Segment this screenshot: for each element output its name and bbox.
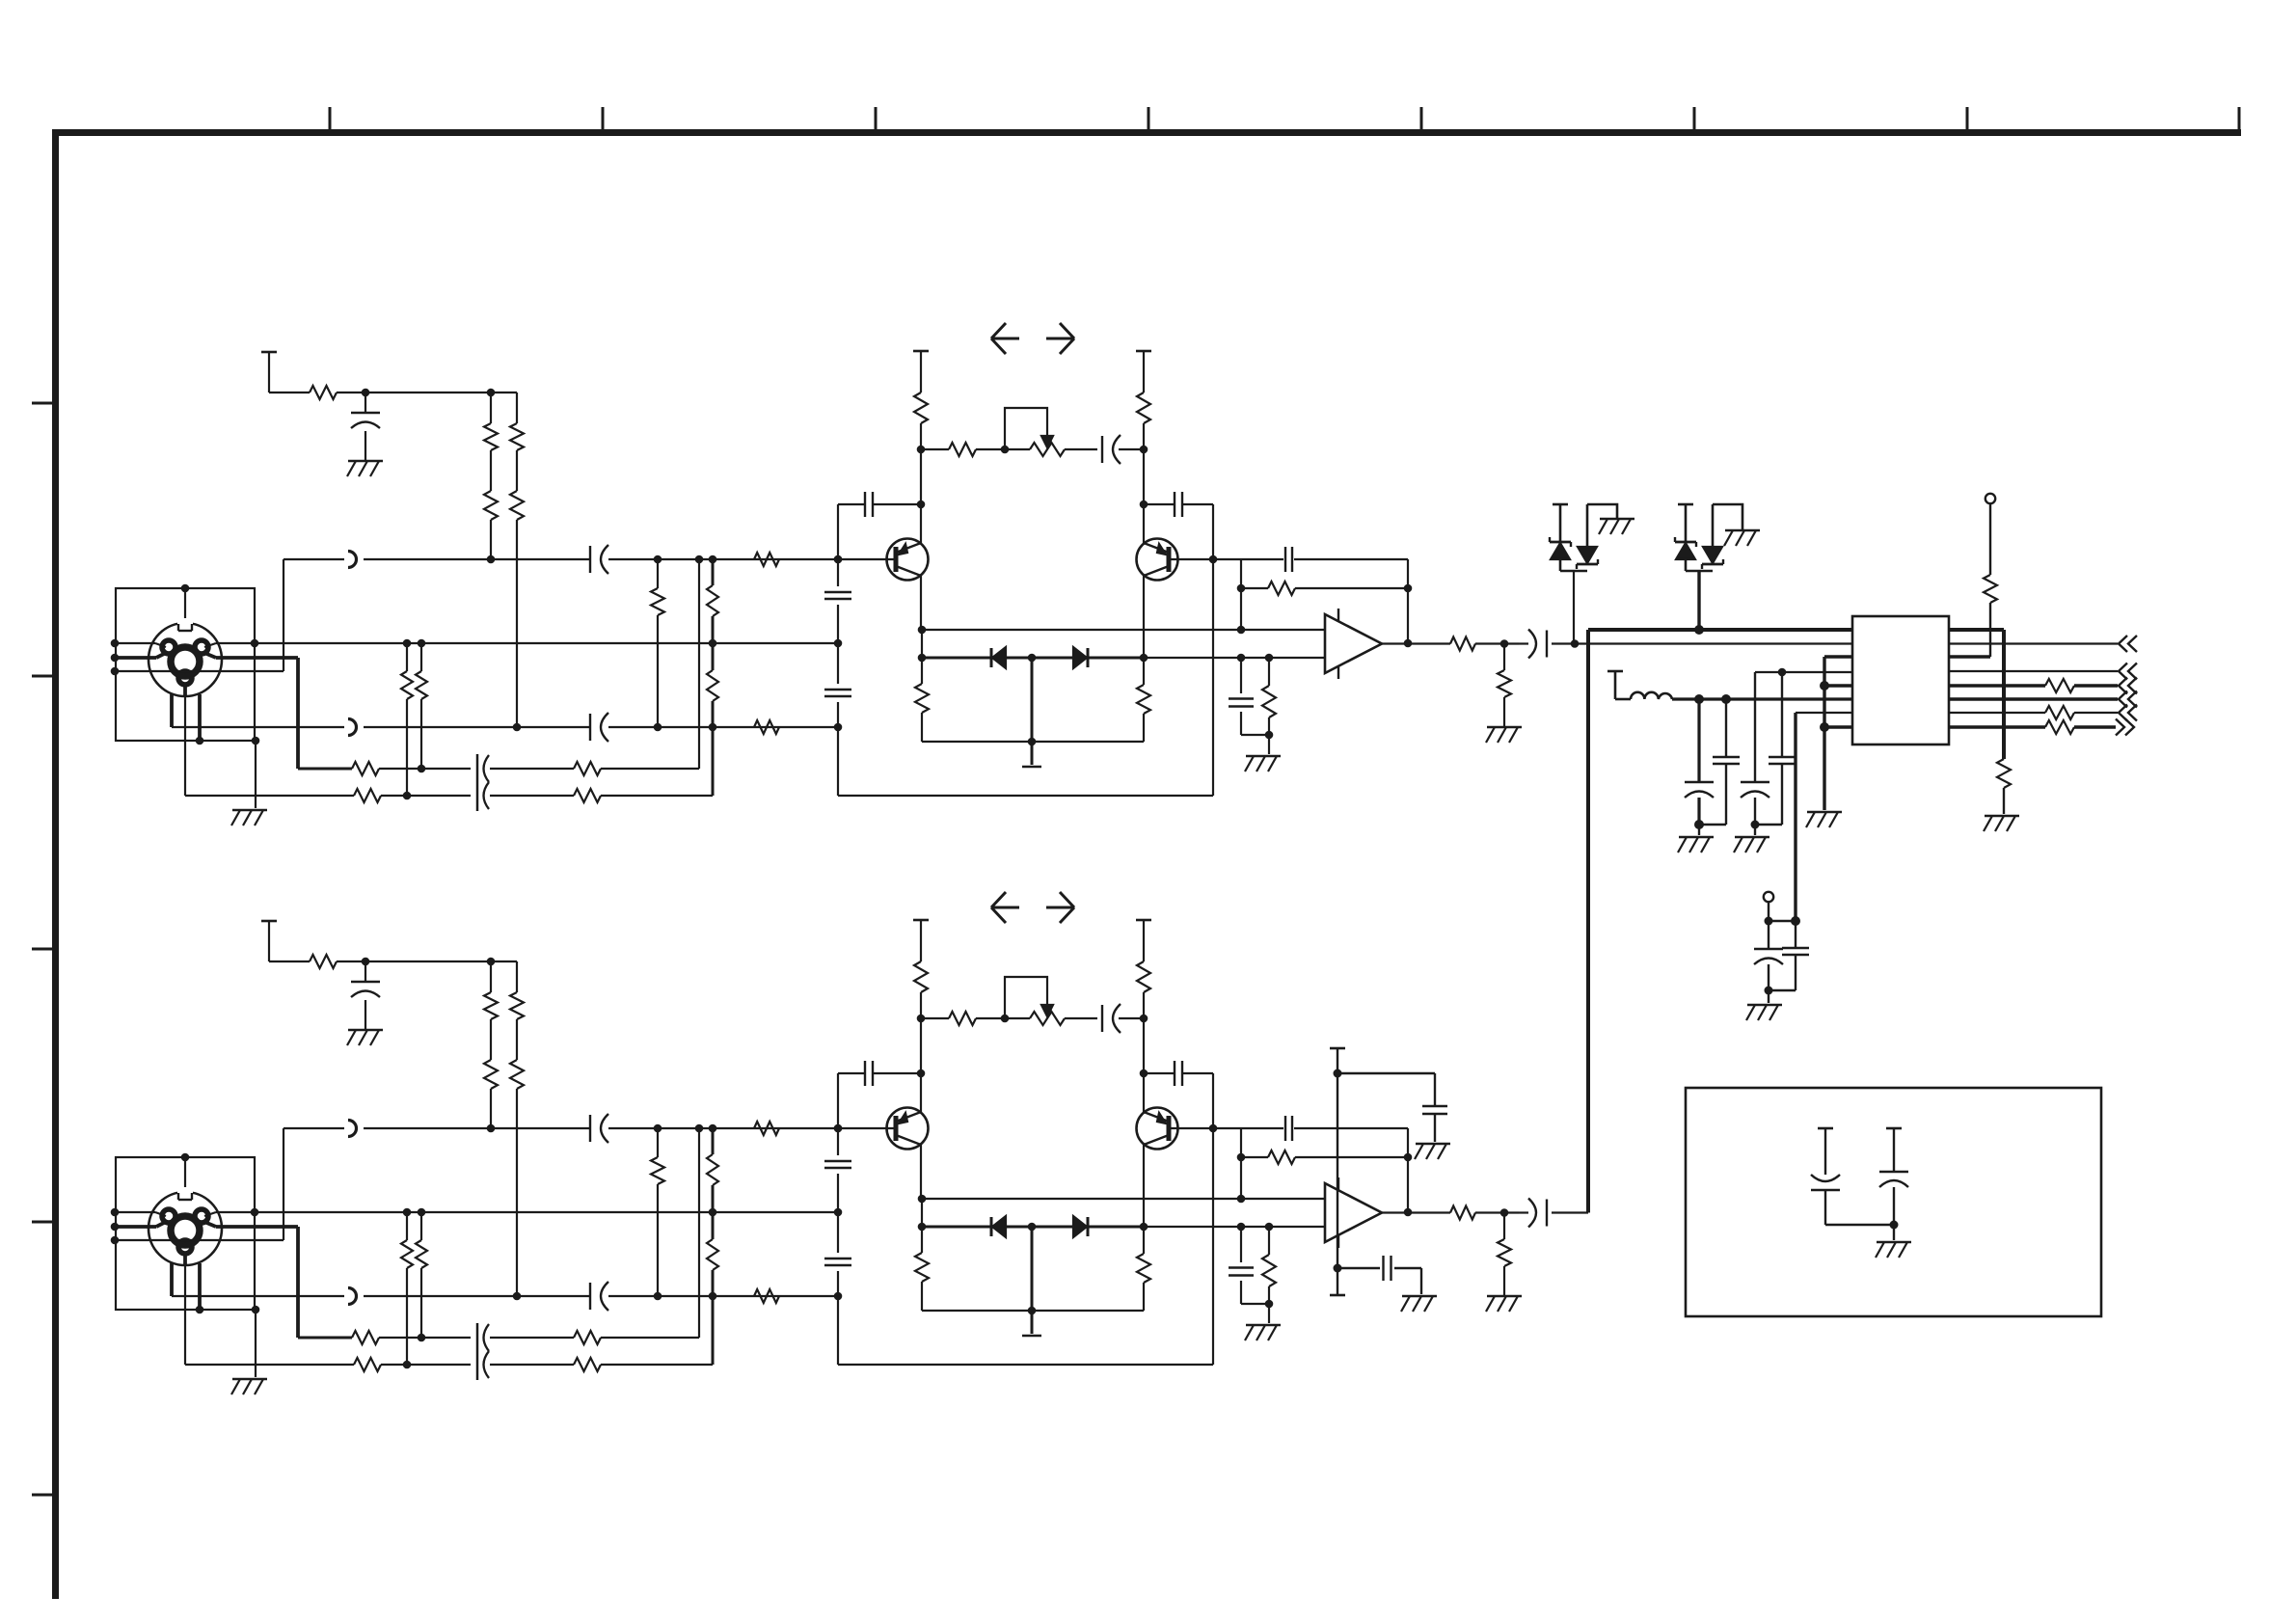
node ch1 cold taps — [654, 723, 843, 732]
TVS clamp pair D3 — [1550, 504, 1617, 644]
wire ch2 phantom feed — [269, 961, 517, 962]
node ch2 diode line taps — [918, 1223, 1274, 1232]
wire ch1 pin sense line — [116, 670, 284, 672]
capacitor ch1 base column lower — [824, 690, 851, 696]
wire ch1 hot riser — [283, 559, 284, 671]
wire ch2 pin2 lead — [204, 1222, 298, 1338]
wire ch2 output node — [1475, 1211, 1519, 1213]
node pin697 taps — [1778, 668, 1787, 677]
transistor ch2 Q2 PNP — [1137, 1108, 1178, 1150]
capacitor ch1 cold coupling — [590, 713, 608, 742]
wire IC out 696 — [1949, 670, 2118, 672]
wire IC pin 711 branch — [1824, 684, 1852, 687]
connector XLR ch1 body — [149, 623, 222, 696]
chevron out 754 — [2116, 719, 2134, 736]
wire supply cap rail 2 — [1755, 825, 1782, 835]
node ch1 feedback taps — [1237, 584, 1413, 593]
wire ch2 w1 riser — [698, 1128, 700, 1338]
resistor ch1 Q2 collector load — [1137, 392, 1150, 423]
frame tick top 4 — [1148, 107, 1150, 132]
resistor ch1 feed 6k8 A lower — [484, 491, 498, 520]
wire ch2 supply bypass lower — [1337, 1267, 1380, 1269]
node ch2 output tap — [1500, 1208, 1509, 1217]
contact ch2 cold jack — [348, 1288, 357, 1305]
wire IC out 754 — [1949, 725, 2116, 728]
node IC ground verticals — [1820, 681, 1829, 732]
wire ch1 upper output line — [922, 629, 1325, 631]
wire terminal cap rail — [1769, 990, 1796, 1003]
resistor ch2 inv RC — [1262, 1255, 1276, 1286]
terminal pullup — [1985, 494, 1995, 503]
resistor ch2 Q2 collector load — [1137, 961, 1150, 992]
capacitor ch1 trim coupling — [1102, 435, 1121, 464]
power terminal ch1 Q2 supply — [1136, 351, 1151, 392]
capacitor ch1 bypass right — [1175, 492, 1182, 517]
wire ch1 phantom feed — [269, 392, 517, 393]
contact ch2 hot jack — [348, 1121, 357, 1137]
resistor IC 653 shunt — [1997, 759, 2011, 788]
frame tick left 2 — [32, 675, 55, 678]
transistor ch1 Q2 PNP — [1137, 539, 1178, 581]
resistor ch1 feed 6k8 B upper — [510, 423, 524, 450]
node supply cap rail 2 — [1751, 821, 1760, 829]
ground ch1 connector shield — [231, 810, 267, 826]
power terminal ch2 Q2 supply — [1136, 920, 1151, 961]
ground ch1 output shunt — [1486, 727, 1522, 743]
gain arrows ch2 — [991, 892, 1074, 923]
diode ch2 D2 — [1073, 1216, 1088, 1237]
node ch1 lower path 2 — [403, 792, 412, 800]
wire ch1 hot line — [284, 558, 838, 560]
ground ch1 phantom filter — [347, 461, 383, 476]
ground ch2 connector shield — [231, 1379, 267, 1394]
resistor IC out 754 — [2045, 720, 2074, 734]
power terminal ch2 op-amp positive — [1330, 1047, 1345, 1050]
capacitor ch2 bypass right — [1175, 1061, 1182, 1086]
inductor L1 — [1631, 692, 1672, 699]
capacitor C23 ceramic — [1769, 672, 1796, 825]
node ch1 bus TVS tap — [1694, 625, 1704, 635]
connector XLR ch2 body — [149, 1192, 222, 1265]
node ch2 box bottom taps — [196, 1306, 260, 1314]
resistor ch1 inv RC — [1262, 686, 1276, 717]
frame tick left 5 — [32, 1494, 55, 1497]
wire ch2 trim line — [921, 1017, 1144, 1019]
resistor IC out 739 — [2045, 706, 2074, 719]
node ch2 cold taps — [654, 1292, 843, 1301]
capacitor ch2 base column lower — [824, 1259, 851, 1265]
resistor pullup — [1984, 575, 1997, 603]
wire ch2 Q1 supply — [920, 992, 922, 1110]
capacitor ch1 hot coupling — [590, 545, 608, 574]
chevron out 667 — [2119, 636, 2137, 652]
resistor ch1 lower path 2 right — [574, 789, 601, 802]
wire ch2 pin1 drop — [183, 1252, 187, 1365]
power terminal option cap 2 — [1886, 1128, 1902, 1172]
connector XLR ch1 pin 3 — [162, 640, 176, 654]
wire ch1 inv RC res leg — [1268, 658, 1270, 754]
power terminal ch2 Q1 supply — [913, 920, 929, 961]
chevron out 739 — [2119, 705, 2137, 721]
wire ch1 cold line — [172, 726, 838, 728]
power terminal ch1 phantom supply — [261, 352, 277, 392]
wire ch1 shield line left — [116, 643, 166, 647]
resistor ch2 cold series — [754, 1289, 779, 1303]
resistor ch1 feed 6k8 A upper — [484, 423, 498, 450]
connector XLR ch2 pin 1 — [178, 1240, 192, 1254]
power terminal ch2 phantom supply — [261, 921, 277, 961]
frame tick top 5 — [1420, 107, 1423, 132]
wire ch2 lower path 2 — [185, 1364, 713, 1366]
wire ch1 pin1 drop — [183, 683, 187, 796]
frame tick top 2 — [602, 107, 605, 132]
wire ch1 bus 653 — [1588, 630, 1852, 1213]
terminal external sense — [1764, 892, 1773, 921]
wire ch1 pin2 lead — [204, 653, 298, 769]
wire ch1 op-amp output — [1382, 642, 1450, 644]
node ch1 emitter rail tap — [1028, 738, 1037, 746]
wire ch1 feedback cap leads — [1241, 558, 1408, 560]
wire ch2 cold tab A — [170, 1263, 174, 1296]
wire ch1 trim line — [921, 448, 1144, 450]
wire IC pin 681 branch — [1824, 657, 1852, 810]
node ch1 Q2 base tap — [1209, 555, 1218, 564]
wire IC out 711 — [1949, 684, 2118, 687]
resistor ch2 Q1 collector load — [914, 961, 928, 992]
ground IC 653 shunt — [1984, 816, 2019, 831]
wire ch1 divider B — [712, 559, 715, 796]
node ch1 upper line taps — [918, 626, 1246, 635]
terminal ch2 bias common — [1022, 1335, 1041, 1338]
wire IC pin 739 branch — [1796, 713, 1852, 921]
connector XLR ch1 pin 2 — [195, 640, 208, 654]
wire ch2 feedback top — [1213, 1128, 1241, 1199]
ground ch2 output shunt — [1486, 1296, 1522, 1312]
node ch1 diode line taps — [918, 654, 1274, 663]
connector XLR ch2 center ring — [171, 1216, 200, 1245]
wire ch1 diode line — [922, 657, 1325, 660]
capacitor ch2 bypass left — [865, 1061, 873, 1086]
wire ch2 feed B — [516, 961, 518, 1296]
wire ch2 base column — [837, 1128, 839, 1365]
frame tick top 1 — [329, 107, 332, 132]
node terminal cap join — [1765, 916, 1801, 995]
wire ch1 inv RC cap leg — [1241, 658, 1269, 735]
wire ch1 Q2 collector — [1143, 576, 1145, 658]
resistor ch1 Q1 emitter — [915, 684, 929, 713]
option box — [1686, 1088, 2101, 1316]
contact ch1 hot jack — [348, 552, 357, 568]
capacitor C25 — [1782, 921, 1809, 990]
node ch2 bypass left tap — [917, 1069, 926, 1078]
wire IC out 739 — [1949, 712, 2118, 714]
wire supply cap rail 1 — [1699, 825, 1726, 835]
wire ch1 Q1 base — [838, 558, 896, 560]
capacitor ch1 inv RC — [1229, 699, 1254, 707]
node ch1 trim wiper return — [1001, 446, 1010, 454]
resistor ch2 feedback — [1268, 1150, 1295, 1164]
wire ch2 lower path 1 — [298, 1337, 699, 1340]
node ch2 Q2 base tap — [1209, 1124, 1218, 1133]
wire ch1 Q1 emitter — [920, 541, 922, 543]
power terminal ch1 Q1 supply — [913, 351, 929, 392]
capacitor ch2 inv RC — [1229, 1268, 1254, 1276]
connector XLR ch2 notch — [177, 1187, 193, 1200]
capacitor ch2 hot coupling — [590, 1114, 608, 1143]
wire ch2 input term A — [657, 1128, 659, 1296]
capacitor ch2 bypass upper — [1422, 1106, 1447, 1142]
wire ch2 shield shunt B — [420, 1212, 422, 1338]
connector XLR ch2 pin 2 — [195, 1209, 208, 1223]
node ch1 base node — [834, 555, 843, 564]
wire ch2 op-amp output — [1382, 1211, 1450, 1213]
node ch2 feedback taps — [1237, 1153, 1413, 1162]
capacitor ch2 output coupling — [1528, 1199, 1547, 1228]
resistor ch2 output shunt — [1498, 1239, 1511, 1266]
resistor ch1 divider B1 — [707, 585, 718, 616]
node ch1 hot taps — [654, 555, 843, 564]
wire ch2 op-amp supply rail — [1337, 1048, 1338, 1295]
resistor ch2 hot series — [754, 1122, 779, 1135]
wire ch2 inv RC res leg — [1268, 1227, 1270, 1323]
node ch2 Q2 trim tap — [1140, 1015, 1148, 1023]
node ch2 inv RC join — [1265, 1300, 1274, 1309]
power terminal ch2 op-amp negative — [1330, 1294, 1345, 1297]
capacitor option C26 — [1811, 1175, 1840, 1225]
resistor ch1 lower path 2 left — [354, 789, 381, 802]
wire IC pin 754 branch — [1824, 725, 1852, 728]
resistor ch1 lower path 1 left — [352, 762, 379, 775]
wire IC out 653 — [1949, 630, 2004, 759]
node ch2 hot taps — [654, 1124, 843, 1133]
node ch2 Q1 trim tap — [917, 1015, 926, 1023]
wire ch2 pin sense line — [116, 1239, 284, 1241]
op-amp ch2 power stubs — [1337, 1177, 1339, 1248]
resistor ch2 lower path 1 right — [574, 1331, 601, 1344]
resistor ch1 shield shunt B — [416, 671, 427, 699]
ground option caps — [1876, 1242, 1911, 1258]
resistor ch2 divider B2 — [707, 1239, 718, 1270]
wire IC out 725 — [1949, 697, 2118, 700]
wire ch2 Q2 base — [1170, 1127, 1213, 1129]
resistor ch2 feed 6k8 A lower — [484, 1060, 498, 1089]
wire ch2 feedback right leg — [1407, 1128, 1409, 1212]
connector XLR ch1 notch — [177, 618, 193, 631]
wire ch1 Q1 collector resistor — [921, 630, 923, 684]
capacitor C24 — [1754, 921, 1783, 990]
wire supply line 725 — [1615, 698, 1852, 701]
wire ch1 cold tab B — [198, 694, 202, 741]
op-amp ch1 — [1325, 614, 1382, 673]
diode ch1 D2 — [1073, 647, 1088, 668]
ground ch2 bypass upper — [1415, 1144, 1450, 1159]
wire option cap join — [1825, 1224, 1894, 1226]
wire ch2 divider B — [712, 1128, 715, 1365]
node supply line taps — [1694, 694, 1731, 704]
resistor ch2 trim series — [949, 1012, 976, 1025]
transistor ch2 Q1 PNP — [887, 1108, 929, 1150]
wire ch1 shield shunt B — [420, 643, 422, 769]
resistor ch1 trim series — [949, 443, 976, 456]
wire ch2 bypass right — [1144, 1073, 1213, 1365]
capacitor ch2 phantom filter — [351, 961, 380, 1030]
resistor ch1 feed 6k8 B lower — [510, 491, 524, 520]
wire terminal cap link — [1769, 920, 1796, 922]
chevron out 696 — [2119, 663, 2137, 680]
ground IC left — [1806, 812, 1842, 827]
capacitor ch1 dual lower — [477, 754, 489, 811]
wire ch2 Q2 collector — [1143, 1145, 1145, 1227]
node option cap join — [1890, 1221, 1899, 1230]
ground ch1 inv RC — [1245, 756, 1281, 771]
wire ch1 feed A — [490, 392, 492, 559]
resistor ch1 hot series — [754, 553, 779, 566]
node ch1 feed A to hot — [487, 555, 496, 564]
resistor ch1 phantom feed — [310, 386, 337, 399]
connector XLR ch2 pin 3 — [162, 1209, 176, 1223]
connector shield box ch1 — [116, 588, 255, 741]
wire ch2 hot line — [284, 1127, 838, 1129]
connector XLR ch1 pin 1 — [178, 671, 192, 685]
frame tick top 6 — [1693, 107, 1696, 132]
wire ch2 feedback cap leads — [1241, 1127, 1408, 1129]
capacitor option C27 — [1879, 1172, 1908, 1240]
gain arrows ch1 — [991, 323, 1074, 354]
wire ch1 input term A — [657, 559, 659, 727]
wire ch2 inv RC cap leg — [1241, 1227, 1269, 1304]
capacitor C20 bulk — [1685, 699, 1714, 825]
node ch1 box pin lines — [111, 639, 120, 676]
node ch1 Q1 trim tap — [917, 446, 926, 454]
wire ch1 Q2 supply — [1143, 423, 1145, 541]
node ch1 inv RC join — [1265, 731, 1274, 740]
ground ch2 phantom filter — [347, 1030, 383, 1045]
wire ch1 output to IC — [1552, 642, 1852, 644]
transistor ch1 Q1 PNP — [887, 539, 929, 581]
node ch1 feedback output tap — [1404, 639, 1413, 648]
resistor ch1 cold series — [754, 720, 779, 734]
wire ch1 diode centre tap — [1031, 658, 1034, 765]
trimmer ch2 gain — [1005, 977, 1065, 1025]
node ch1 shield line taps — [251, 639, 843, 648]
node ch2 feed A to hot — [487, 1124, 496, 1133]
wire ch1 feedback res leads — [1241, 587, 1408, 589]
resistor ch1 divider B2 — [707, 670, 718, 701]
resistor ch2 divider B1 — [707, 1154, 718, 1185]
wire ch1 lower path 2 — [185, 795, 713, 797]
capacitor ch2 feedback — [1285, 1116, 1292, 1141]
capacitor ch1 output coupling — [1528, 630, 1547, 659]
wire ch1 Q1 emitter rail — [922, 713, 1144, 742]
node ch1 clamp tap — [1571, 639, 1580, 648]
capacitor ch1 base column upper — [824, 592, 851, 599]
wire ch2 cold line — [172, 1295, 838, 1297]
wire IC 653 shunt leg — [2003, 788, 2005, 814]
node ch2 divider B mid — [709, 1208, 717, 1217]
wire ch1 bypass left — [838, 504, 921, 559]
node ch1 feed B to cold — [513, 723, 522, 732]
capacitor ch2 bypass lower — [1384, 1256, 1422, 1294]
chevron out 725 — [2119, 691, 2137, 708]
wire ch2 diode centre tap — [1031, 1227, 1034, 1334]
diode ch1 D1 — [991, 647, 1006, 668]
wire ch2 Q1 collector — [920, 1145, 922, 1199]
node ch2 shield box top — [181, 1153, 190, 1162]
wire ch2 shield line left — [116, 1212, 166, 1216]
wire ch1 w1 riser — [698, 559, 700, 769]
node ch1 shield box top — [181, 584, 190, 593]
node ch2 bypass right tap — [1140, 1069, 1148, 1078]
capacitor ch2 dual lower — [477, 1323, 489, 1380]
resistor ch2 lower path 1 left — [352, 1331, 379, 1344]
wire ch1 feed B — [516, 392, 518, 727]
wire IC out 667 — [1949, 642, 2118, 644]
resistor ch2 shield shunt A — [401, 1240, 413, 1268]
resistor ch2 Q1 emitter — [915, 1253, 929, 1282]
wire ch2 bottom rail — [838, 1364, 1213, 1366]
ground supply group 2 — [1734, 837, 1769, 853]
wire IC pin 697 net — [1755, 671, 1852, 673]
frame tick top 7 — [1966, 107, 1969, 132]
wire ch2 Q2 emitter — [1143, 1110, 1145, 1112]
node ch2 feedback output tap — [1404, 1208, 1413, 1217]
wire ch2 Q1 base — [838, 1127, 896, 1129]
wire ch1 Q1 supply — [920, 423, 922, 541]
ground supply group 1 — [1678, 837, 1714, 853]
wire ch2 Q2 supply — [1143, 992, 1145, 1110]
wire ch2 upper output line — [922, 1198, 1325, 1200]
wire pullup — [1949, 503, 1990, 657]
wire ch1 shield line — [204, 643, 838, 647]
node ch2 base node — [834, 1124, 843, 1133]
wire ch1 Q1 collector — [920, 576, 922, 630]
capacitor ch1 feedback — [1285, 547, 1292, 572]
wire ch1 feedback right leg — [1407, 559, 1409, 643]
wire ch1 cold tab A — [170, 694, 174, 727]
capacitor ch1 phantom filter — [351, 392, 380, 461]
wire ch1 lower path 1 — [298, 768, 699, 771]
wire ch1 Q2 emitter — [1143, 541, 1145, 543]
node ch1 phantom cap tap — [362, 389, 496, 397]
resistor ch1 Q1 collector load — [914, 392, 928, 423]
ground TVS D3 — [1599, 519, 1634, 534]
node ch2 lower path 1 — [418, 1334, 426, 1342]
capacitor ch1 bypass left — [865, 492, 873, 517]
wire ch2 sleeve stub — [184, 1157, 186, 1198]
power terminal digital supply — [1607, 671, 1623, 699]
wire ch1 output cap lead — [1519, 642, 1528, 644]
wire ch2 feed A — [490, 961, 492, 1128]
node ch2 shield line taps — [251, 1208, 843, 1217]
node ch2 lower path 2 — [403, 1361, 412, 1369]
resistor ch2 feed 6k8 B lower — [510, 1060, 524, 1089]
resistor ch1 output series — [1450, 637, 1475, 651]
ground TVS D4 — [1724, 530, 1760, 546]
wire ch2 pin3 lead — [116, 1222, 166, 1227]
resistor ch2 feed 6k8 B upper — [510, 992, 524, 1019]
wire ch2 box ground stub — [255, 1310, 257, 1377]
TVS clamp pair D4 — [1675, 504, 1742, 632]
resistor ch2 input term A — [651, 1157, 664, 1184]
wire ch2 hot riser — [283, 1128, 284, 1240]
power terminal option cap 1 — [1818, 1128, 1833, 1175]
node supply cap rail 1 — [1694, 820, 1704, 829]
wire ch1 base column — [837, 559, 839, 796]
wire ch2 Q1 collector resistor — [921, 1199, 923, 1253]
node ch2 op-amp supply taps — [1334, 1069, 1342, 1273]
wire ch1 shield shunt A — [406, 643, 408, 796]
wire ch1 bottom rail — [838, 795, 1213, 797]
